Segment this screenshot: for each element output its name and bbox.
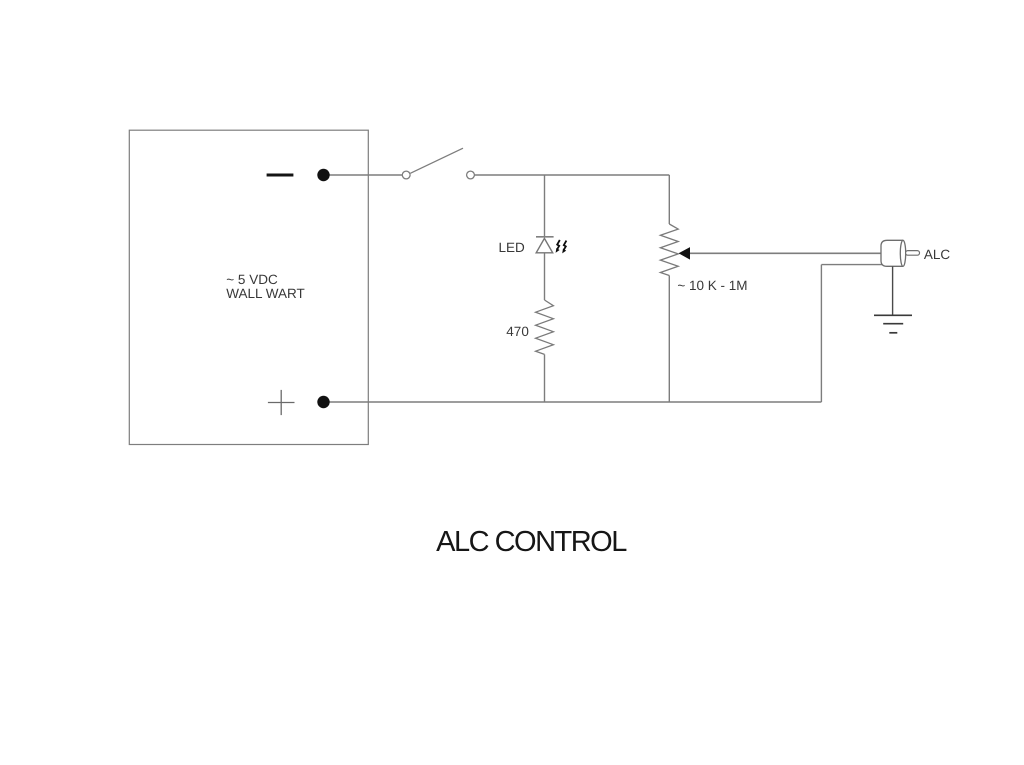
svg-text:470: 470 bbox=[506, 324, 529, 339]
svg-text:LED: LED bbox=[499, 240, 526, 255]
svg-text:ALC: ALC bbox=[924, 247, 951, 262]
svg-text:~ 10 K - 1M: ~ 10 K - 1M bbox=[677, 278, 747, 293]
svg-text:~ 5 VDC: ~ 5 VDC bbox=[226, 272, 278, 287]
svg-text:WALL WART: WALL WART bbox=[226, 286, 305, 301]
svg-text:ALC CONTROL: ALC CONTROL bbox=[436, 526, 627, 558]
